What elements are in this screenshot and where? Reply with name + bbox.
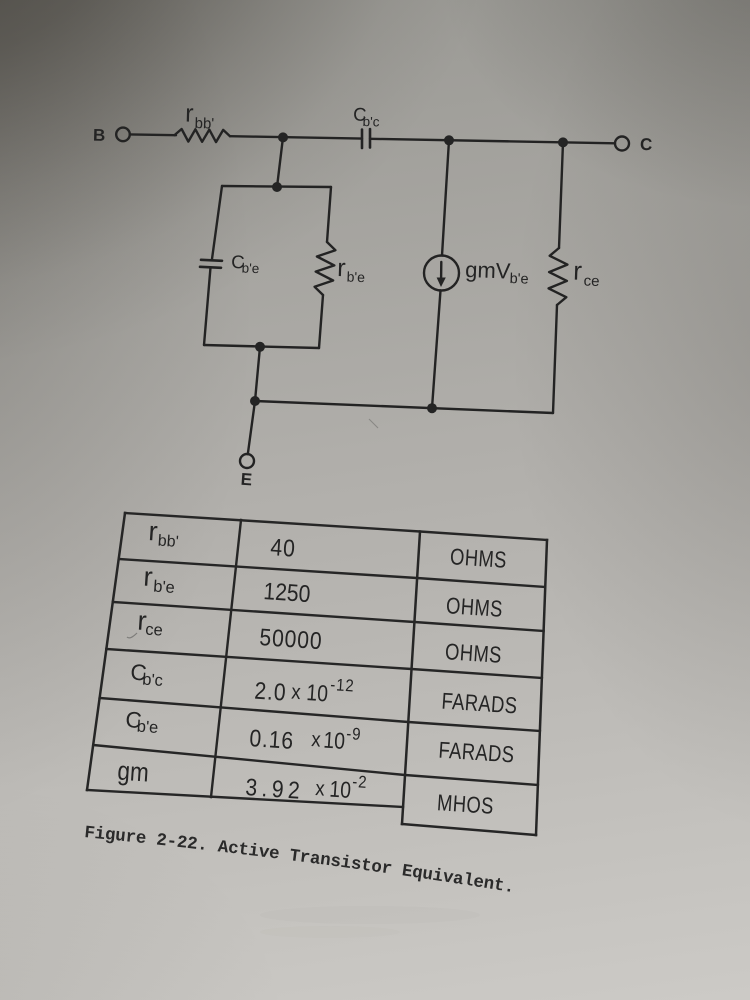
svg-text:B: B [93, 126, 106, 145]
svg-text:gm: gm [117, 757, 150, 788]
svg-text:ce: ce [145, 621, 164, 640]
svg-text:10: 10 [323, 728, 346, 754]
svg-text:Figure 2-22. Active Transisto: Figure 2-22. Active Transistor Equivalen… [83, 823, 515, 898]
svg-text:FARADS: FARADS [438, 738, 515, 768]
svg-text:FARADS: FARADS [441, 689, 518, 719]
svg-text:r: r [573, 256, 583, 286]
svg-text:50000: 50000 [259, 624, 324, 655]
svg-text:OHMS: OHMS [445, 593, 503, 622]
svg-text:b'c: b'c [142, 671, 164, 690]
svg-text:E: E [240, 470, 253, 490]
svg-text:1250: 1250 [263, 578, 312, 608]
svg-text:-2: -2 [352, 773, 368, 792]
svg-text:0.16: 0.16 [249, 725, 295, 754]
svg-text:b'e: b'e [153, 578, 176, 597]
svg-text:x: x [291, 680, 302, 704]
svg-text:x: x [311, 728, 322, 752]
svg-text:r: r [337, 254, 346, 282]
svg-text:10: 10 [329, 777, 352, 803]
svg-text:C: C [640, 135, 653, 154]
svg-text:x: x [315, 777, 326, 801]
svg-text:gmV: gmV [465, 257, 511, 284]
svg-text:b'e: b'e [136, 718, 159, 737]
svg-text:OHMS: OHMS [449, 544, 507, 573]
svg-text:10: 10 [306, 681, 329, 707]
svg-text:ce: ce [583, 273, 599, 291]
svg-text:b'e: b'e [241, 261, 259, 277]
svg-text:b'e: b'e [509, 271, 528, 288]
svg-text:40: 40 [270, 534, 297, 562]
svg-text:OHMS: OHMS [444, 639, 502, 668]
svg-text:2.0: 2.0 [254, 677, 288, 706]
svg-text:-12: -12 [330, 676, 355, 696]
svg-text:MHOS: MHOS [436, 790, 494, 819]
svg-text:r: r [185, 100, 194, 128]
svg-text:r: r [143, 562, 154, 593]
svg-text:b'c: b'c [362, 114, 379, 129]
svg-text:-9: -9 [346, 725, 362, 744]
svg-text:b'e: b'e [346, 269, 365, 286]
svg-text:3.92: 3.92 [245, 774, 305, 804]
svg-text:bb': bb' [157, 533, 179, 551]
svg-text:bb': bb' [194, 115, 214, 133]
